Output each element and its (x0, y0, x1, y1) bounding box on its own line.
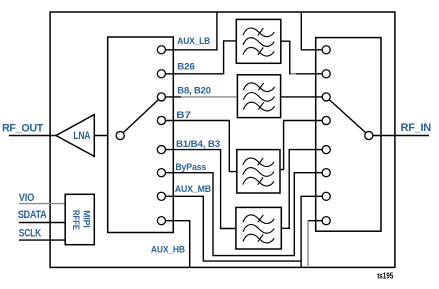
svg-text:B1/B4, B3: B1/B4, B3 (176, 139, 220, 150)
switch SW1 throw contacts (circles) (157, 46, 165, 225)
switch SW2 throw contacts (circles) (322, 46, 330, 225)
filter F3 (B7) box (237, 150, 280, 193)
svg-text:AUX_LB: AUX_LB (177, 36, 210, 47)
wire B26 row: throw 2 to filter F1 input (161, 41, 236, 74)
filter F2 glyph (243, 83, 274, 111)
wire B1/B4,B3 row: throw 5 down to filter F4 input (161, 150, 236, 229)
wire AUX_MB riser: SW2 throw 7 down to bottom border (301, 196, 326, 267)
switch SW1 pole diagonal to throw 3 (120, 97, 161, 136)
svg-text:SCLK: SCLK (19, 227, 41, 239)
filter F1 (B26) box (236, 19, 280, 63)
switch SW1 pole contact (116, 131, 124, 139)
svg-text:VIO: VIO (19, 192, 35, 204)
MIPI RFFE controller block (65, 194, 94, 244)
wire F4 output to SW2 throw 5 (281, 150, 326, 229)
wire AUX_HB from SW2 throw 8 (308, 220, 326, 222)
wire B8,B20 row gray segment into F2 (181, 96, 236, 98)
svg-text:B26: B26 (177, 62, 194, 73)
wire AUX_HB: throw 8 down to bottom border (161, 221, 189, 268)
wire RF_IN from SW2 pole (369, 135, 429, 137)
svg-text:ts195: ts195 (377, 271, 394, 280)
switch SW2 pole contact (365, 131, 373, 139)
wire AUX_LB row: throw 1 to riser to top border (161, 12, 217, 50)
wire LNA output to switch pole (94, 135, 120, 137)
wire B7 row: throw 4 down to filter F3 input (161, 121, 236, 172)
svg-text:B7: B7 (176, 110, 190, 121)
svg-text:ByPass: ByPass (175, 162, 206, 173)
svg-text:AUX_HB: AUX_HB (151, 245, 185, 256)
switch SW1 box (left antenna switch) (108, 37, 174, 233)
wire ByPass row: throw 6 routed under filters to SW2 throw 6 (161, 173, 326, 256)
svg-text:RF_IN: RF_IN (401, 122, 432, 134)
filter F4 glyph (243, 215, 274, 243)
LNA amplifier U1 triangle (56, 115, 94, 157)
outer module border (top edge carries AUX_LB net, bottom edge carries AUX_HB net) (50, 12, 395, 267)
svg-text:AUX_MB: AUX_MB (175, 184, 211, 195)
filter F2 (B8,B20) box (237, 75, 280, 118)
switch SW2 pole diagonal to throw 3 (326, 97, 369, 136)
svg-text:RFFE: RFFE (71, 210, 81, 230)
filter F3 glyph (243, 158, 274, 186)
wire AUX_MB row: throw 7 routed under filters to riser (161, 196, 301, 261)
wire F2 output to SW2 throw 3 (281, 96, 327, 98)
wire F3 output to SW2 throw 4 (280, 121, 326, 170)
wire AUX_LB riser from top border to SW2 throw 1 (301, 12, 326, 50)
filter F4 (B1/B4,B3) box (236, 207, 281, 249)
filter F1 glyph (243, 28, 274, 56)
svg-text:SDATA: SDATA (18, 209, 47, 221)
wire F1 output gray nub (291, 73, 297, 75)
wire SDATA (19, 222, 65, 224)
switch SW2 box (right antenna switch) (316, 38, 381, 232)
wire F1 output to SW2 throw 2 (281, 41, 326, 74)
svg-text:LNA: LNA (73, 130, 90, 142)
wire RF_OUT input (9, 135, 56, 137)
svg-text:B8, B20: B8, B20 (177, 85, 211, 96)
wire VIO (gray) (19, 203, 65, 205)
svg-text:RF_OUT: RF_OUT (2, 123, 44, 135)
wire AUX_HB riser to bottom border (gray) (307, 221, 309, 268)
svg-text:MIPI: MIPI (82, 210, 92, 227)
wire B8,B20 row: throw 3 toward filter F2 (black part) (161, 96, 181, 98)
MIPI RFFE label (rotated) (71, 210, 91, 230)
wire SCLK (19, 239, 65, 241)
